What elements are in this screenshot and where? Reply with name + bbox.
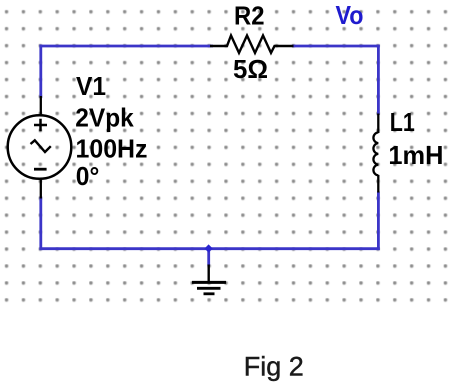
resistor R2 — [210, 36, 294, 53]
wire ground stub — [207, 248, 210, 266]
ground bar 2 — [197, 287, 221, 290]
wire top horizontal (right of R2) — [292, 45, 380, 48]
svg-text:Fig 2: Fig 2 — [244, 352, 304, 382]
node junction dot — [205, 244, 213, 252]
source V1 minus sign — [34, 168, 47, 171]
ground bar 1 — [192, 281, 226, 284]
svg-text:1mH: 1mH — [388, 140, 443, 170]
inductor L1 lead top — [377, 114, 379, 134]
source V1 circle — [8, 115, 72, 179]
svg-text:2Vpk: 2Vpk — [75, 103, 134, 133]
svg-text:100Hz: 100Hz — [76, 133, 148, 163]
ground bar 3 — [204, 292, 215, 295]
wire top horizontal (left of R2) — [39, 45, 213, 48]
wire left vertical bottom — [39, 197, 42, 251]
wire right vertical top — [377, 45, 380, 115]
inductor L1 coil — [373, 132, 378, 175]
svg-text:0°: 0° — [76, 161, 100, 191]
svg-text:Vo: Vo — [336, 0, 364, 30]
svg-text:L1: L1 — [390, 107, 415, 137]
svg-text:V1: V1 — [76, 71, 106, 101]
inductor L1 lead bottom — [377, 175, 379, 193]
source V1 plus sign — [34, 119, 47, 131]
wire right vertical bottom — [377, 192, 380, 251]
svg-text:R2: R2 — [234, 0, 265, 30]
source V1 sine symbol — [31, 140, 51, 152]
wire left vertical top — [39, 45, 42, 98]
ground lead — [207, 265, 209, 283]
source V1 lead bottom — [40, 179, 42, 199]
svg-text:5Ω: 5Ω — [233, 54, 268, 84]
wire bottom horizontal — [39, 247, 379, 250]
source V1 lead top — [40, 96, 42, 116]
